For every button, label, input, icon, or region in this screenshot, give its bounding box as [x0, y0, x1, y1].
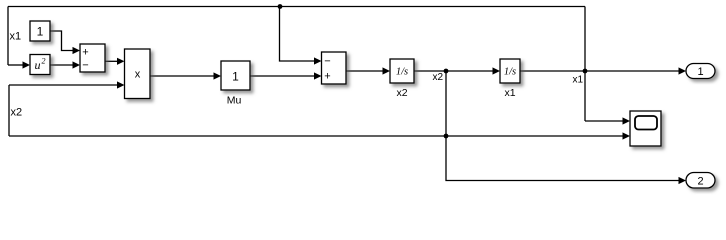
wire x2 to outport 2: [446, 136, 686, 184]
svg-text:x2: x2: [11, 107, 23, 119]
svg-text:x2: x2: [432, 72, 443, 83]
label x1: [504, 87, 515, 99]
product block: [125, 49, 151, 99]
svg-text:x: x: [135, 69, 141, 81]
svg-text:x2: x2: [396, 87, 407, 99]
wire x2 branch down: [445, 71, 447, 136]
gain block Mu value 1: [221, 61, 250, 90]
outport 1: [686, 64, 715, 79]
outport 2: [686, 173, 715, 189]
wire x2 into product: [9, 81, 125, 88]
label x2: [396, 87, 407, 99]
svg-text:u: u: [35, 58, 41, 72]
svg-text:x1: x1: [572, 75, 583, 86]
wire into u2 block: [8, 61, 30, 68]
svg-text:+: +: [324, 71, 330, 83]
svg-text:2: 2: [697, 176, 703, 188]
svg-text:+: +: [82, 47, 88, 59]
svg-text:−: −: [82, 60, 88, 72]
integrator block x2: [390, 59, 414, 83]
integrator block x1: [500, 59, 520, 83]
node x2 label left: [11, 107, 23, 119]
wire constant 1 to sum1 plus: [50, 31, 80, 54]
wire gain Mu to sum2 plus: [250, 72, 322, 79]
sum block sum1: [80, 44, 105, 72]
wire x1 branch down to sum2 minus: [280, 7, 322, 65]
math function block u squared: [30, 55, 50, 75]
wire product to gain Mu: [150, 72, 221, 79]
svg-text:x1: x1: [10, 31, 22, 43]
wire x1 left vertical: [7, 7, 9, 66]
svg-text:Mu: Mu: [227, 95, 242, 107]
junction x1: [583, 69, 588, 74]
node x1 signal label: [572, 75, 583, 86]
wire x2 horizontal to scope: [9, 132, 630, 139]
node x2 signal label: [432, 72, 443, 83]
svg-text:2: 2: [42, 57, 46, 66]
scope block: [630, 111, 661, 146]
svg-text:−: −: [324, 56, 330, 68]
node x1 label left: [10, 31, 22, 43]
wire x1 into scope: [585, 117, 630, 124]
sum block sum2: [322, 52, 347, 84]
wire sum1 to product: [105, 58, 125, 65]
svg-text:1/s: 1/s: [396, 67, 408, 78]
svg-text:1: 1: [232, 70, 239, 84]
junction top line: [278, 4, 283, 9]
svg-text:1: 1: [697, 66, 703, 78]
svg-text:1: 1: [37, 25, 44, 39]
wire x1 feedback top line: [8, 6, 585, 8]
wire u2 to sum1 minus: [50, 61, 80, 68]
wire sum2 to integrator x2: [346, 67, 390, 74]
wire x1 vertical to scope: [584, 7, 586, 122]
wire x2 feedback left vertical: [8, 85, 10, 136]
junction x2 lower: [444, 134, 449, 139]
wire integrator x2 to integrator x1: [414, 67, 500, 74]
constant block value 1: [30, 21, 50, 41]
label Mu: [227, 95, 242, 107]
junction x2: [444, 69, 449, 74]
svg-text:x1: x1: [504, 87, 515, 99]
svg-text:1/s: 1/s: [504, 67, 516, 78]
wire integrator x1 to outport 1: [520, 67, 686, 74]
